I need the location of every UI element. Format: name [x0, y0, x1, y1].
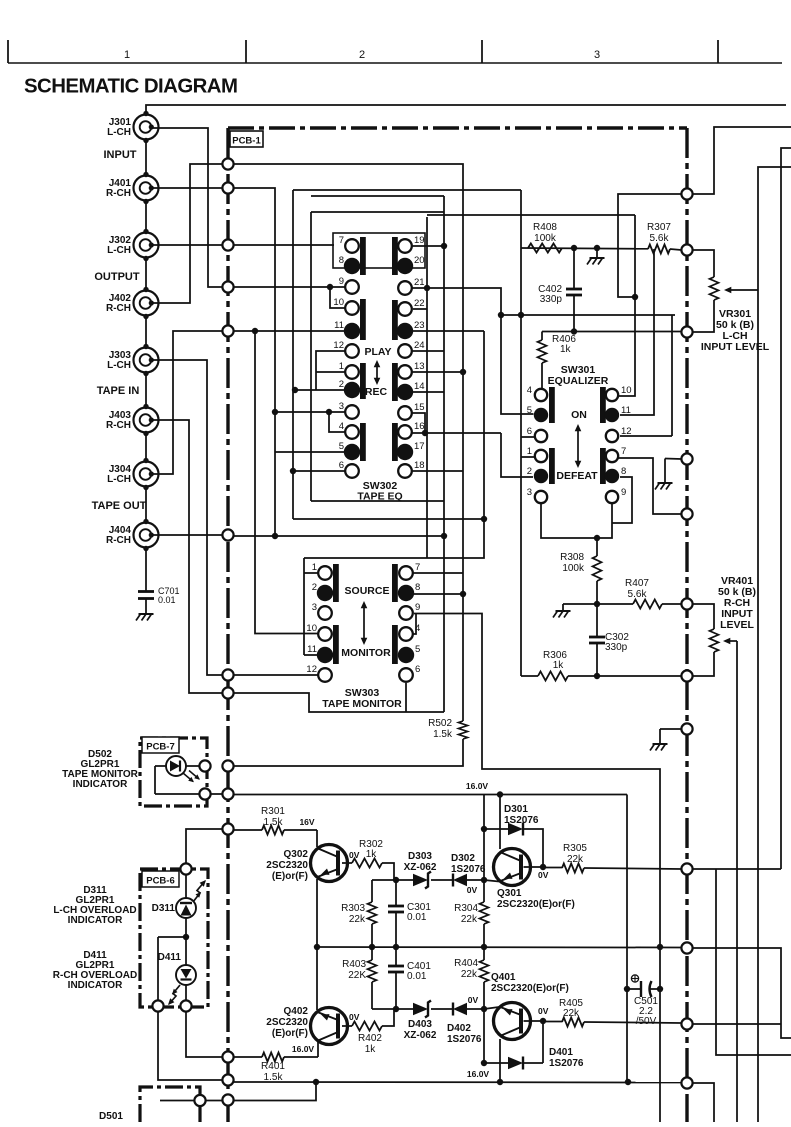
resistor R406	[541, 332, 543, 341]
svg-text:7: 7	[415, 562, 420, 573]
SW301 pin 9	[606, 491, 618, 503]
PCB-1 label	[230, 131, 263, 147]
node row 880	[372, 879, 394, 881]
connector PCB-1 left y=1057	[222, 1051, 233, 1062]
wire Q401 collector riser	[499, 1039, 501, 1082]
SW301 pin 8	[605, 469, 619, 483]
svg-text:16.0V: 16.0V	[467, 1069, 490, 1079]
jack J402 R-CH	[134, 291, 159, 316]
SW303 pin 6	[399, 668, 413, 682]
svg-text:23: 23	[414, 320, 425, 331]
svg-text:0V: 0V	[468, 995, 479, 1005]
resistor R308	[596, 538, 598, 556]
wire pin24 tap	[412, 350, 444, 352]
svg-text:3: 3	[527, 487, 532, 498]
svg-text:22k: 22k	[349, 914, 366, 925]
svg-text:9: 9	[415, 602, 420, 613]
wire SW301 pin7 to connector 514	[618, 458, 681, 514]
svg-text:3: 3	[312, 602, 317, 613]
svg-text:D301: D301	[504, 804, 528, 815]
SW302 pin 9	[345, 280, 359, 294]
connector PCB-1 right y=869	[681, 863, 692, 874]
svg-text:R307: R307	[647, 222, 671, 233]
svg-text:13: 13	[414, 361, 425, 372]
connector PCB-1 left y=245	[222, 239, 233, 250]
wire x427 vertical	[426, 217, 428, 558]
SW302 pin 19	[398, 239, 412, 253]
svg-text:12: 12	[306, 664, 317, 675]
wire row 948 right	[693, 948, 791, 1038]
wire pin13 to R502 net	[412, 371, 463, 373]
wire Q402 emitter riser	[316, 947, 318, 1010]
svg-text:1S2076: 1S2076	[504, 815, 539, 826]
wire SW302 pin21 node	[412, 287, 427, 289]
wire right edge entry y167	[758, 167, 791, 1122]
svg-text:10: 10	[621, 385, 632, 396]
SW303 right bars	[392, 564, 398, 602]
wire SW303 pin6 riser	[405, 683, 407, 712]
resistor R408	[528, 244, 562, 253]
SW302 outer box	[311, 211, 444, 213]
wire mid rail 947	[317, 946, 681, 949]
svg-text:L-CH: L-CH	[107, 360, 131, 371]
transistor Q401	[494, 1003, 531, 1040]
connector PCB-1 left y=1100	[222, 1094, 233, 1105]
svg-text:5: 5	[527, 405, 532, 416]
SW302 pin 20	[397, 258, 413, 274]
wire rail to C501 drop	[626, 795, 628, 990]
svg-text:8: 8	[339, 255, 344, 266]
wire SW303 pin9 feedback	[414, 614, 660, 1123]
wire SW302 pin3-pin4 link	[329, 412, 345, 432]
wire connector 675 to SW303 pin12	[234, 674, 318, 676]
wire Q302 emitter to rail	[316, 879, 318, 947]
svg-text:22k: 22k	[461, 914, 478, 925]
wire connector 287 to SW302 pin9	[234, 286, 345, 288]
resistor R401	[234, 1056, 262, 1058]
wire J301 top to right edge	[146, 105, 786, 114]
svg-text:10: 10	[306, 623, 317, 634]
SW301 arrow	[577, 429, 579, 463]
connector PCB-1 right y=1024	[681, 1018, 692, 1029]
SW303 pin 3	[318, 606, 332, 620]
svg-text:8: 8	[415, 582, 420, 593]
resistor R502	[459, 721, 468, 739]
SW301 right bars	[600, 387, 606, 423]
svg-text:D501: D501	[99, 1111, 123, 1122]
svg-text:INDICATOR: INDICATOR	[68, 980, 123, 991]
SW303 pin 9	[399, 606, 413, 620]
svg-text:16V: 16V	[299, 817, 314, 827]
SW301 pin 10	[606, 389, 618, 401]
wire SW302 pin9-pin10 link	[330, 287, 345, 308]
connector PCB-1 left y=829	[222, 823, 233, 834]
svg-text:22k: 22k	[567, 854, 584, 865]
svg-text:PLAY: PLAY	[364, 346, 391, 358]
wire pin2-6 net x293	[293, 189, 521, 191]
connector PCB-1 left y=794	[222, 788, 233, 799]
svg-text:2: 2	[312, 582, 317, 593]
svg-text:R407: R407	[625, 578, 649, 589]
jack J403 R-CH	[134, 408, 159, 433]
svg-text:17: 17	[414, 441, 425, 452]
svg-text:XZ-062: XZ-062	[404, 862, 437, 873]
svg-text:D402: D402	[447, 1023, 471, 1034]
diode D402	[431, 1008, 453, 1010]
SW301 pin 6	[535, 430, 547, 442]
jack J301 L-CH	[134, 115, 159, 140]
node row 604	[594, 601, 600, 607]
wire SW301 pin8 link	[612, 477, 632, 523]
resistor R407	[597, 603, 633, 605]
wire SW302 pin19 to x444	[412, 245, 444, 247]
svg-text:22: 22	[414, 298, 425, 309]
wire R408 left riser x521	[520, 190, 522, 676]
svg-text:R-CH: R-CH	[106, 188, 131, 199]
svg-text:INPUT: INPUT	[104, 149, 137, 161]
SW303 pin 1	[318, 566, 332, 580]
connector PCB-6 bottom left	[152, 1000, 163, 1011]
LED D411	[185, 937, 187, 965]
wire SW301 pin12 link	[620, 435, 672, 437]
wire connector 188 to J401 net vertical	[234, 188, 275, 536]
wire Q302 collector riser	[316, 830, 318, 847]
svg-text:2: 2	[527, 466, 532, 477]
svg-text:5: 5	[415, 644, 420, 655]
svg-text:DEFEAT: DEFEAT	[556, 470, 598, 482]
svg-text:PCB-1: PCB-1	[232, 136, 261, 147]
svg-text:R303: R303	[341, 903, 365, 914]
connector PCB-6 top	[180, 863, 191, 874]
SW302 pin 11	[344, 323, 360, 339]
SW303 pin11 stub	[304, 654, 317, 656]
PCB-7 label	[142, 737, 179, 753]
svg-text:19: 19	[414, 235, 425, 246]
wire J303 riser to connector 675	[152, 360, 222, 675]
svg-text:8: 8	[621, 466, 626, 477]
svg-text:20: 20	[414, 255, 425, 266]
svg-text:D411: D411	[158, 952, 182, 963]
wire Q301 collector riser	[499, 795, 501, 850]
svg-text:3: 3	[339, 401, 344, 412]
wire pin6 row	[293, 470, 345, 472]
SW301 pin 12	[606, 430, 618, 442]
wire vertical x444	[443, 196, 445, 712]
svg-text:2SC2320(E)or(F): 2SC2320(E)or(F)	[491, 983, 569, 994]
svg-text:2SC2320: 2SC2320	[266, 1017, 308, 1028]
svg-text:4: 4	[527, 385, 532, 396]
connector PCB-1 left y=331	[222, 325, 233, 336]
svg-text:(E)or(F): (E)or(F)	[272, 871, 308, 882]
svg-text:TAPE MONITOR: TAPE MONITOR	[322, 698, 402, 710]
svg-text:0V: 0V	[538, 870, 549, 880]
svg-text:1k: 1k	[366, 849, 378, 860]
wire Q401 emitter	[484, 1007, 499, 1009]
wire SW301 pin1 row	[521, 456, 535, 458]
SW302 pin 1	[345, 365, 359, 379]
SW303 left border	[303, 558, 305, 655]
wire connector 164 to R502 net	[234, 164, 463, 721]
SW301 left bars	[549, 387, 555, 423]
connector PCB-1 right y=514	[681, 508, 692, 519]
wire J304 riser to connector 331	[152, 331, 222, 474]
wire PCB-6 right exit	[186, 1012, 222, 1057]
PCB-1 right border	[685, 128, 688, 1122]
svg-text:1.5k: 1.5k	[264, 817, 284, 828]
svg-text:D403: D403	[408, 1019, 432, 1030]
svg-text:ON: ON	[571, 409, 587, 421]
wire SW301 pin11 riser	[620, 249, 654, 415]
connector PCB-1 left y=766	[222, 760, 233, 771]
SW302 pin 24	[398, 344, 412, 358]
wire jack chain	[145, 114, 147, 588]
svg-text:EQUALIZER: EQUALIZER	[548, 375, 609, 387]
SW302 left bars	[360, 237, 366, 275]
SW303 pin 11	[317, 647, 333, 663]
SW302 pin 6	[345, 464, 359, 478]
connector D502 bottom	[199, 788, 210, 799]
svg-text:D401: D401	[549, 1047, 573, 1058]
svg-text:0V: 0V	[467, 885, 478, 895]
wire SW302 pin3 row	[275, 411, 345, 413]
wire J403 riser to connector 693	[152, 420, 222, 693]
wire bottom PCB-5 row	[234, 1082, 316, 1101]
svg-text:22k: 22k	[461, 969, 478, 980]
SW301 pin 5	[534, 408, 548, 422]
connector PCB-1 right y=948	[681, 942, 692, 953]
wire J401 to connector	[152, 187, 222, 189]
resistor R404	[483, 947, 485, 960]
svg-text:2SC2320(E)or(F): 2SC2320(E)or(F)	[497, 899, 575, 910]
wire x484 top segment	[483, 795, 485, 830]
svg-text:330p: 330p	[605, 642, 628, 653]
svg-text:R502: R502	[428, 718, 452, 729]
resistor R403	[371, 947, 373, 960]
wire 16.0V rail top	[234, 794, 627, 796]
svg-text:R304: R304	[454, 903, 478, 914]
connector PCB-1 right y=250	[681, 244, 692, 255]
resistor R305	[543, 867, 562, 869]
svg-text:5.6k: 5.6k	[650, 233, 670, 244]
diode D401	[542, 1021, 544, 1063]
zener D403	[396, 1008, 413, 1010]
wire pin21 to SW301 pin5	[427, 288, 534, 414]
potentiometer VR401	[693, 604, 714, 629]
svg-text:1S2076: 1S2076	[451, 864, 486, 875]
svg-text:1: 1	[339, 361, 344, 372]
connector D502 top	[199, 760, 210, 771]
wire connector 194 jog to x635	[618, 194, 681, 297]
svg-text:R401: R401	[261, 1061, 285, 1072]
svg-text:Q301: Q301	[497, 888, 522, 899]
svg-text:/50V: /50V	[636, 1016, 657, 1027]
svg-text:R403: R403	[342, 959, 366, 970]
svg-text:7: 7	[621, 446, 626, 457]
wire SW302 pin5 tap	[275, 451, 344, 453]
wire SW302 pin18 tap	[412, 470, 463, 472]
connector PCB-1 left y=675	[222, 669, 233, 680]
svg-text:R-CH: R-CH	[106, 535, 131, 546]
wire R408 row	[521, 247, 648, 250]
svg-text:6: 6	[415, 664, 420, 675]
svg-text:15: 15	[414, 402, 425, 413]
wire pin14 tap	[413, 391, 444, 393]
svg-text:R308: R308	[560, 552, 584, 563]
node row 1009	[372, 1008, 394, 1010]
wire pin1 loop	[316, 371, 345, 373]
LED D502	[155, 765, 166, 767]
resistor R301	[234, 829, 262, 831]
wire SW301 pin6 tap	[521, 436, 535, 438]
svg-text:LEVEL: LEVEL	[720, 619, 754, 631]
SW303 pin 12	[318, 668, 332, 682]
svg-text:Q302: Q302	[284, 849, 309, 860]
connector PCB-1 left y=1080	[222, 1074, 233, 1085]
svg-text:1: 1	[527, 446, 532, 457]
ruler scale bar	[8, 62, 782, 64]
svg-text:0.01: 0.01	[158, 595, 176, 605]
svg-text:PCB-6: PCB-6	[146, 876, 175, 887]
SW301 pin 7	[606, 450, 618, 462]
svg-text:R301: R301	[261, 806, 285, 817]
wire J301 to node 287	[152, 128, 222, 287]
wire R502 bottom to D502 row	[234, 739, 463, 766]
node branch to SW303 pin10	[252, 328, 258, 334]
svg-text:2: 2	[339, 379, 344, 390]
svg-text:2SC2320: 2SC2320	[266, 860, 308, 871]
SW302 pin 4	[345, 425, 359, 439]
diode D302	[431, 879, 453, 881]
PCB-1 left border	[226, 128, 229, 1122]
connector PCB-1 right y=1083	[681, 1077, 692, 1088]
resistor R405	[543, 1021, 562, 1023]
SW302 pin 15	[398, 406, 412, 420]
svg-text:6: 6	[527, 426, 532, 437]
wire right edge entry y127	[693, 127, 791, 194]
wire SW303 pin8 link	[414, 593, 463, 595]
capacitor C302	[596, 604, 598, 637]
svg-text:21: 21	[414, 277, 425, 288]
wire SW302 top link	[311, 195, 444, 197]
wire row 1024 right	[693, 1023, 781, 1025]
svg-text:18: 18	[414, 460, 425, 471]
SW302 pin 17	[397, 444, 413, 460]
SW302 pin 12	[345, 344, 359, 358]
capacitor C701	[145, 588, 147, 592]
resistor R304	[480, 902, 489, 924]
wire right edge entry y148	[781, 148, 791, 869]
wire J404 to connector 535	[152, 534, 222, 536]
svg-text:INPUT LEVEL: INPUT LEVEL	[701, 341, 770, 353]
svg-text:22k: 22k	[563, 1008, 580, 1019]
connector PCB-1 left y=693	[222, 687, 233, 698]
connector PCB-1 right y=729	[681, 723, 692, 734]
SW301 pin 1	[535, 450, 547, 462]
svg-text:16: 16	[414, 421, 425, 432]
wire SW303 pin4 tap	[412, 614, 416, 635]
svg-text:11: 11	[334, 320, 344, 331]
svg-text:5: 5	[339, 441, 344, 452]
SW303 pin1 stub	[304, 572, 318, 574]
jack J303 L-CH	[134, 348, 159, 373]
connector PCB-1 left y=164	[222, 158, 233, 169]
svg-text:1: 1	[312, 562, 317, 573]
svg-text:0.01: 0.01	[407, 971, 427, 982]
wire y519 link	[293, 518, 484, 520]
svg-text:D302: D302	[451, 853, 475, 864]
capacitor C402	[573, 248, 575, 289]
connector PCB-6 bottom right	[180, 1000, 191, 1011]
wire pin12 link	[316, 351, 345, 390]
wire pin15 link	[412, 413, 425, 433]
svg-text:1k: 1k	[553, 660, 565, 671]
svg-text:16.0V: 16.0V	[292, 1044, 315, 1054]
svg-text:12: 12	[333, 340, 344, 351]
wire rail bottom right	[693, 1083, 714, 1122]
resistor R306	[521, 675, 538, 677]
svg-text:100k: 100k	[534, 233, 557, 244]
svg-text:SOURCE: SOURCE	[345, 585, 390, 597]
svg-text:7: 7	[339, 235, 344, 246]
wire pin23 drop to SW303 top	[304, 331, 484, 558]
SW301 pin 3	[535, 491, 547, 503]
svg-text:INDICATOR: INDICATOR	[73, 779, 128, 790]
wire Q301 base node	[524, 866, 544, 868]
wire equalizer node row 331	[542, 331, 681, 333]
SW302 pin 23	[397, 323, 413, 339]
SW302 pin 2	[344, 382, 360, 398]
wire pin2 tap	[295, 389, 344, 391]
svg-text:330p: 330p	[540, 294, 563, 305]
SW302 pin 5	[344, 444, 360, 460]
connector PCB-1 right y=332	[681, 326, 692, 337]
svg-text:5.6k: 5.6k	[628, 589, 648, 600]
svg-text:24: 24	[414, 340, 425, 351]
wire x737 vertical	[736, 641, 738, 1122]
capacitor C501	[624, 986, 630, 992]
resistor R303	[371, 880, 373, 902]
svg-text:100k: 100k	[562, 563, 585, 574]
SW302 pin 13	[398, 365, 412, 379]
PCB-7 box	[140, 738, 207, 806]
svg-text:1k: 1k	[560, 344, 572, 355]
connector PCB-1 right y=194	[681, 188, 692, 199]
SW301 pin 4	[535, 389, 547, 401]
svg-text:1k: 1k	[365, 1044, 377, 1055]
svg-text:R408: R408	[533, 222, 557, 233]
wire Q301 emitter	[484, 880, 499, 882]
wire connector 729 ground	[660, 728, 681, 730]
SW301 pin 11	[605, 408, 619, 422]
jack J304 L-CH	[134, 462, 159, 487]
jack J401 R-CH	[134, 176, 159, 201]
jack J404 R-CH	[134, 523, 159, 548]
SW302 pin 22	[398, 302, 412, 316]
svg-text:L-CH: L-CH	[107, 127, 131, 138]
wire D502 bottom row	[155, 793, 199, 795]
wire x635 drop to SW301 pin10	[619, 215, 635, 396]
wire J402 riser to connector 164	[152, 164, 222, 303]
svg-text:D311: D311	[152, 903, 176, 914]
svg-text:1S2076: 1S2076	[447, 1034, 482, 1045]
SW302 pin 7	[345, 239, 359, 253]
ground row 604	[563, 603, 597, 605]
diode D301	[484, 828, 508, 830]
wire J302 to connector and SW302 pin7	[152, 244, 222, 246]
wire D502 anode riser	[154, 766, 156, 794]
node pins 3-4 junction	[272, 409, 278, 415]
wire C501 left drop	[626, 989, 628, 1082]
